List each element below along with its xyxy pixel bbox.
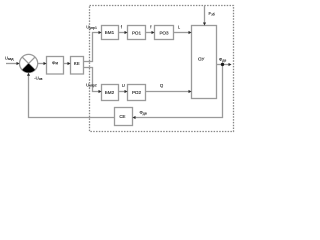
svg-text:Uупр2: Uупр2	[86, 82, 97, 87]
svg-text:-Uсв: -Uсв	[34, 76, 42, 81]
svg-text:Фдв: Фдв	[219, 57, 226, 62]
svg-text:Uупр1: Uупр1	[86, 25, 97, 30]
svg-text:РО1: РО1	[132, 30, 142, 35]
svg-text:Фдв: Фдв	[140, 110, 147, 115]
svg-text:КЕ: КЕ	[74, 61, 80, 66]
svg-text:ОУ: ОУ	[198, 57, 204, 62]
svg-text:БМ2: БМ2	[105, 90, 115, 95]
svg-text:U: U	[122, 83, 125, 88]
svg-text:Fзб: Fзб	[209, 11, 215, 16]
svg-text:СЕ: СЕ	[119, 114, 125, 119]
svg-text:РО3: РО3	[159, 30, 169, 35]
svg-text:РО2: РО2	[132, 90, 142, 95]
svg-text:Uзад: Uзад	[5, 56, 14, 61]
svg-text:БМ1: БМ1	[105, 30, 115, 35]
svg-text:Фи: Фи	[52, 61, 58, 66]
